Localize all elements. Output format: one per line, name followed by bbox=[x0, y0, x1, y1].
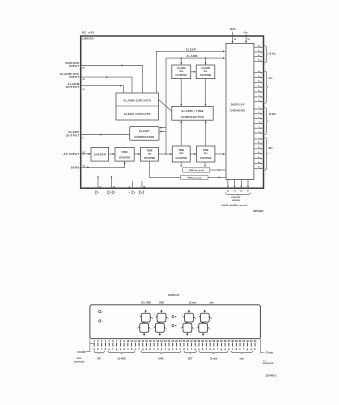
svg-text:11: 11 bbox=[258, 86, 260, 88]
brace 10 HRS group bbox=[108, 351, 135, 354]
wire time hrs counter to display drivers bbox=[215, 153, 225, 155]
svg-text:10 HRS: 10 HRS bbox=[117, 357, 126, 360]
wire alarm hrs counter to comparator bbox=[205, 79, 207, 106]
block ALARM CIRCUITS / SLEEP CIRCUITS bbox=[116, 93, 159, 120]
svg-text:50/60: 50/60 bbox=[71, 166, 80, 170]
wire SLEEP to display drivers bbox=[156, 51, 224, 93]
svg-text:9: 9 bbox=[259, 95, 260, 97]
colon lower dot bbox=[172, 325, 174, 327]
svg-text:3: 3 bbox=[259, 127, 260, 129]
svg-text:COUNTER: COUNTER bbox=[200, 158, 212, 160]
bus label TIME (seconds) boxed bbox=[181, 175, 208, 179]
svg-text:OUTPUT: OUTPUT bbox=[66, 134, 80, 138]
wire time hrs counter to TIME(min) bus bbox=[204, 162, 206, 165]
wire alarm off input bbox=[81, 77, 132, 93]
svg-text:27: 27 bbox=[247, 190, 249, 192]
left cathode connection bbox=[86, 339, 90, 352]
brace 10 min group bbox=[199, 351, 228, 354]
svg-text:min: min bbox=[179, 153, 184, 155]
svg-text:COMPARATOR: COMPARATOR bbox=[181, 115, 205, 119]
svg-text:2: 2 bbox=[259, 131, 260, 133]
display panel box bbox=[90, 305, 261, 339]
svg-text:7: 7 bbox=[259, 107, 260, 109]
block ALARM min COUNTER bbox=[172, 65, 191, 79]
svg-text:b: b bbox=[211, 318, 212, 320]
svg-text:COUNTER: COUNTER bbox=[176, 75, 188, 77]
svg-text:TIME: TIME bbox=[147, 150, 153, 153]
bottom pin 10 (set input) bbox=[97, 176, 99, 188]
svg-text:e: e bbox=[153, 328, 154, 330]
svg-text:e: e bbox=[137, 328, 138, 330]
wire ALARM to display drivers bbox=[166, 58, 225, 154]
svg-text:ALARM: ALARM bbox=[177, 67, 185, 70]
svg-text:ALARM / TIME: ALARM / TIME bbox=[181, 109, 204, 113]
block DISPLAY DRIVERS bbox=[226, 43, 254, 179]
svg-text:OUTPUT: OUTPUT bbox=[66, 85, 80, 89]
bus label TIME (min) boxed bbox=[183, 168, 210, 172]
svg-text:10: 10 bbox=[99, 187, 101, 189]
wire time sec to time min counter bbox=[158, 153, 172, 155]
svg-text:min: min bbox=[179, 71, 184, 73]
svg-text:Min: Min bbox=[269, 148, 274, 150]
brace min group bbox=[231, 351, 253, 354]
display mode pins (bottom) bbox=[227, 179, 229, 187]
svg-text:c: c bbox=[166, 328, 167, 330]
svg-text:c: c bbox=[150, 328, 151, 330]
bracket Min group bbox=[265, 138, 268, 170]
svg-text:25: 25 bbox=[258, 157, 260, 159]
svg-text:b: b bbox=[195, 318, 196, 320]
wire alarm to sleep comparator bbox=[160, 127, 166, 129]
svg-text:ALARM: ALARM bbox=[186, 54, 198, 58]
svg-text:SLEEP, ALARM, seconds: SLEEP, ALARM, seconds bbox=[221, 204, 248, 207]
svg-text:12: 12 bbox=[258, 81, 260, 83]
svg-text:28: 28 bbox=[247, 39, 249, 41]
wire 50/60 counter to time sec counter bbox=[134, 153, 140, 155]
bracket Hrs group bbox=[265, 71, 268, 103]
svg-text:SET: SET bbox=[188, 357, 193, 360]
svg-text:HRS: HRS bbox=[159, 303, 164, 305]
svg-text:10 HRS: 10 HRS bbox=[77, 352, 86, 354]
brace DP group bbox=[94, 351, 105, 354]
svg-text:KATHODE: KATHODE bbox=[263, 362, 274, 365]
svg-text:SHAPER: SHAPER bbox=[94, 153, 106, 157]
svg-text:COMPARATOR: COMPARATOR bbox=[134, 135, 154, 139]
svg-text:24: 24 bbox=[258, 161, 260, 164]
svg-text:14: 14 bbox=[258, 70, 260, 73]
wire TIME(min) bus to display drivers bbox=[210, 169, 226, 171]
svg-text:5: 5 bbox=[259, 117, 260, 119]
svg-text:21: 21 bbox=[234, 190, 236, 192]
svg-text:10 min: 10 min bbox=[210, 357, 218, 360]
svg-text:50/60: 50/60 bbox=[121, 151, 128, 154]
block ALARM/TIME COMPARATOR bbox=[172, 106, 213, 120]
bracket 10 Min group bbox=[265, 108, 268, 135]
wire time min to hrs carry bbox=[190, 153, 196, 155]
svg-text:DC +(V): DC +(V) bbox=[82, 30, 94, 34]
svg-text:10 Min: 10 Min bbox=[269, 114, 277, 116]
block 50/60 COUNTER bbox=[115, 147, 134, 161]
svg-text:4: 4 bbox=[259, 121, 260, 124]
svg-text:TIME: TIME bbox=[178, 149, 184, 152]
svg-text:28: 28 bbox=[258, 142, 260, 144]
wire time min counter to comparator bbox=[180, 121, 182, 146]
wire alarm line to alarm hrs counter bbox=[205, 58, 207, 65]
IC outer boundary box bbox=[81, 36, 264, 188]
svg-text:DISPLAY: DISPLAY bbox=[168, 293, 180, 297]
svg-text:e: e bbox=[196, 328, 197, 330]
block TIME sec COUNTER bbox=[141, 147, 159, 161]
svg-text:17: 17 bbox=[258, 50, 260, 52]
svg-text:18: 18 bbox=[258, 46, 260, 48]
wire time sec counter to TIME(seconds) bus bbox=[150, 161, 181, 177]
svg-text:13794B-C: 13794B-C bbox=[265, 374, 276, 377]
svg-text:TIME (seconds): TIME (seconds) bbox=[187, 178, 202, 180]
bottom pin 28 bbox=[141, 181, 143, 188]
svg-text:HRS: HRS bbox=[158, 357, 163, 360]
wire shaper to 50/60 counter bbox=[109, 153, 115, 155]
indicator lamp 1 bbox=[99, 310, 101, 312]
indicator lamp 2 bbox=[99, 320, 101, 322]
svg-text:z: z bbox=[103, 312, 104, 314]
svg-text:8: 8 bbox=[259, 100, 260, 102]
wire alarm min counter to comparator bbox=[180, 79, 182, 106]
wire diagonal alarm circuits to comparator bbox=[159, 100, 172, 112]
block ALARM hrs COUNTER bbox=[196, 65, 215, 79]
svg-text:25: 25 bbox=[234, 39, 236, 41]
display driver output pins (right side) bbox=[254, 46, 262, 48]
svg-text:1: 1 bbox=[259, 137, 260, 139]
svg-text:LM8560: LM8560 bbox=[82, 37, 94, 41]
bottom pin 8 bbox=[132, 181, 134, 188]
wire TIME(seconds) bus to display drivers bbox=[208, 176, 225, 178]
wire alarm min to hrs carry bbox=[191, 71, 196, 73]
svg-text:COUNTER: COUNTER bbox=[119, 158, 131, 160]
wire alarm output bbox=[81, 86, 124, 93]
svg-text:SLEEP: SLEEP bbox=[186, 47, 196, 51]
display pin row bbox=[94, 340, 257, 351]
wire time hrs counter to comparator bbox=[205, 121, 207, 146]
svg-text:10's HRS: 10's HRS bbox=[141, 303, 151, 305]
svg-text:min: min bbox=[240, 357, 245, 360]
svg-text:13: 13 bbox=[258, 76, 260, 78]
brace display modes bbox=[226, 193, 251, 196]
svg-text:INPUT: INPUT bbox=[69, 64, 79, 68]
svg-text:+Dp: +Dp bbox=[243, 32, 248, 34]
block SHAPER bbox=[91, 147, 109, 161]
svg-text:10 Hrs: 10 Hrs bbox=[269, 54, 277, 56]
svg-text:min: min bbox=[209, 303, 214, 305]
brace SET group bbox=[184, 351, 197, 354]
svg-text:TIME: TIME bbox=[203, 149, 209, 152]
block SLEEP COMPARATOR bbox=[130, 127, 159, 141]
brace HRS group bbox=[141, 351, 181, 354]
svg-text:10: 10 bbox=[258, 90, 260, 92]
svg-text:INPUT: INPUT bbox=[69, 75, 79, 79]
svg-text:13 min.: 13 min. bbox=[266, 353, 274, 355]
svg-text:c: c bbox=[194, 328, 195, 330]
wire time min counter to TIME(min) bus bbox=[180, 162, 182, 165]
svg-text:AC INPUT: AC INPUT bbox=[63, 152, 79, 156]
svg-text:8: 8 bbox=[129, 186, 130, 188]
bracket 10 Hrs group bbox=[265, 46, 268, 63]
svg-text:ALARM CIRCUITS: ALARM CIRCUITS bbox=[123, 99, 151, 103]
svg-text:6: 6 bbox=[259, 112, 260, 114]
svg-text:27: 27 bbox=[258, 147, 260, 149]
7-segment digit D4 bbox=[198, 310, 211, 335]
svg-text:COUNTER: COUNTER bbox=[144, 158, 156, 160]
wire alarm line to alarm min counter bbox=[180, 58, 182, 65]
svg-text:12/24: 12/24 bbox=[230, 28, 236, 31]
svg-text:ALARM: ALARM bbox=[201, 67, 209, 70]
block TIME min COUNTER bbox=[172, 146, 190, 162]
colon upper dot bbox=[172, 316, 174, 318]
svg-text:DP: DP bbox=[98, 357, 102, 360]
7-segment digit D1 bbox=[139, 310, 152, 335]
svg-text:b: b bbox=[152, 318, 153, 320]
svg-text:b: b bbox=[168, 318, 169, 320]
wire snooze input bbox=[81, 66, 143, 94]
svg-text:23: 23 bbox=[258, 167, 260, 169]
svg-text:DISPLAY: DISPLAY bbox=[231, 102, 245, 106]
7-segment digit D3 bbox=[182, 310, 195, 335]
svg-text:COUNTER: COUNTER bbox=[176, 158, 188, 160]
wire AC input to shaper bbox=[81, 153, 91, 155]
svg-text:DRIVERS: DRIVERS bbox=[230, 108, 245, 112]
svg-text:c: c bbox=[209, 328, 210, 330]
7-segment digit D2 bbox=[154, 310, 167, 335]
wire sleep output bbox=[81, 134, 130, 136]
svg-text:SLEEP: SLEEP bbox=[139, 129, 150, 133]
svg-text:16: 16 bbox=[258, 55, 260, 57]
svg-text:20: 20 bbox=[227, 190, 229, 192]
right cathode connection bbox=[260, 339, 264, 353]
svg-text:15: 15 bbox=[258, 60, 260, 62]
block TIME hrs COUNTER bbox=[197, 146, 215, 162]
svg-text:e: e bbox=[180, 328, 181, 330]
svg-text:13PS1B2: 13PS1B2 bbox=[253, 210, 264, 213]
svg-text:HRS: HRS bbox=[77, 358, 82, 360]
svg-text:KATHODE: KATHODE bbox=[74, 360, 85, 363]
svg-text:22: 22 bbox=[240, 190, 242, 192]
svg-text:26: 26 bbox=[258, 152, 260, 154]
wire 50/60 select bbox=[81, 161, 125, 167]
svg-text:10 min: 10 min bbox=[189, 303, 197, 305]
svg-text:COUNTER: COUNTER bbox=[200, 75, 212, 77]
svg-text:TIME (min) (st.b): TIME (min) (st.b) bbox=[189, 169, 205, 172]
svg-text:SLEEP CIRCUITS: SLEEP CIRCUITS bbox=[124, 112, 151, 116]
svg-text:26: 26 bbox=[113, 187, 115, 189]
bottom pin 26 (set input) bbox=[111, 176, 113, 188]
svg-text:28: 28 bbox=[143, 186, 145, 188]
svg-text:MODES: MODES bbox=[232, 200, 241, 202]
svg-text:DISPLAY: DISPLAY bbox=[231, 196, 241, 199]
